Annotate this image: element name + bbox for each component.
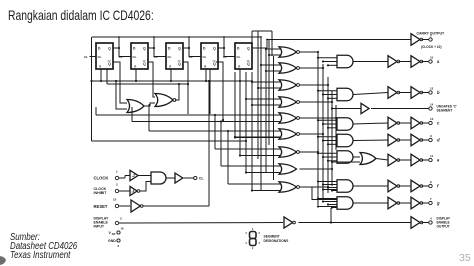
svg-text:2: 2 <box>116 183 118 187</box>
flip-flop FF1 <box>96 43 113 69</box>
and-gate A-g <box>337 197 353 210</box>
wire FF2 Qbar drop to G2 <box>148 62 155 97</box>
wire interbuffer row a <box>399 61 412 63</box>
vertical bus x258 <box>257 31 259 159</box>
or-gate G2 <box>155 94 173 107</box>
wire interbuffer row b <box>399 92 412 94</box>
flip-flop FF2 <box>131 43 148 69</box>
terminal output f pin 6 <box>429 184 432 187</box>
wire M7 output <box>300 151 319 153</box>
wire FF4 drop <box>216 62 223 120</box>
svg-text:f: f <box>437 184 439 189</box>
buffer row c stage2 <box>411 117 420 129</box>
svg-text:DD: DD <box>112 233 116 236</box>
svg-text:Q: Q <box>247 62 250 66</box>
buffer row g stage1 <box>388 197 397 209</box>
svg-text:4: 4 <box>430 217 432 221</box>
vertical bus x328 <box>327 77 329 193</box>
buffer row b stage1 <box>388 87 397 99</box>
buffer display enable output <box>411 217 420 229</box>
vertical bus x235 <box>234 72 236 138</box>
buffer row g stage2 <box>411 197 420 209</box>
wire M4 input stubs <box>246 98 282 100</box>
svg-text:OUTPUT: OUTPUT <box>437 225 450 229</box>
flip-flop FF5 <box>235 43 252 69</box>
or-gate M6 <box>279 129 297 140</box>
wire clock buf to AND <box>139 175 152 177</box>
svg-text:7: 7 <box>430 197 432 201</box>
wire reset vertical up <box>208 81 210 206</box>
svg-text:CL: CL <box>133 55 137 59</box>
vertical bus x252 <box>251 72 253 191</box>
svg-text:16: 16 <box>121 227 125 231</box>
wire AND to buffer row d <box>353 139 388 142</box>
flip-flop FF3 <box>166 43 183 69</box>
svg-text:Q: Q <box>247 47 250 51</box>
wire M7 upper input <box>215 148 281 150</box>
wire M1 input stubs <box>266 48 282 50</box>
wire M2 input stubs <box>261 64 282 66</box>
wire to terminal row c <box>422 122 429 124</box>
icon segment designations <box>250 232 257 246</box>
wire reset bus tap to gate G1 <box>116 81 127 109</box>
wire g-row link <box>300 187 338 200</box>
wire reset bus under flip-flops <box>92 80 254 82</box>
svg-text:(CLOCK ÷ 10): (CLOCK ÷ 10) <box>421 45 442 49</box>
buffer row f stage2 <box>411 180 420 192</box>
buffer clock inhibit <box>130 186 137 195</box>
wire CL stub FF3 <box>160 56 167 58</box>
wire M9 lower input <box>252 190 281 192</box>
svg-text:15: 15 <box>113 198 117 202</box>
svg-text:CL: CL <box>168 55 172 59</box>
svg-text:CL: CL <box>203 55 207 59</box>
wire to terminal row g <box>422 202 429 204</box>
or-gate M8 <box>279 164 297 175</box>
wire AND to buffer row g <box>353 202 388 204</box>
terminal CL node <box>194 176 197 179</box>
svg-text:b: b <box>437 90 440 95</box>
wire carry line <box>267 39 411 41</box>
wire bus y141 <box>92 140 247 142</box>
wire carry to terminal <box>422 39 429 41</box>
wire OR-e second input <box>332 161 360 163</box>
wire M8 output <box>300 168 333 170</box>
wire A-a input stubs <box>318 57 337 59</box>
and-gate clock <box>151 172 166 184</box>
svg-text:INPUT: INPUT <box>94 224 105 228</box>
wire ungated C input <box>332 108 361 110</box>
or-gate M4 <box>279 97 297 108</box>
vertical bus x261 <box>260 37 262 190</box>
wire bus y121.5 <box>132 121 281 123</box>
wire CL stub FF1 <box>90 56 97 58</box>
wire reset to vertical <box>143 205 210 207</box>
wire top feedback bus <box>92 36 261 38</box>
wire vertical tap to top bus at FF4 <box>223 37 225 48</box>
terminal output a pin 10 <box>429 60 432 63</box>
svg-text:R: R <box>169 65 171 69</box>
wire reset stub FF3 <box>170 69 172 81</box>
wire A-d input stubs <box>318 136 337 138</box>
terminal DISPLAY ENABLE INPUT pin 3 <box>115 221 118 224</box>
terminal output c pin 13 <box>429 121 432 124</box>
buffer row e stage2 <box>411 154 420 166</box>
svg-text:Q: Q <box>108 62 111 66</box>
or-gate M9 <box>279 182 297 193</box>
svg-text:d: d <box>437 138 440 143</box>
wire reset stub FF2 <box>135 69 137 81</box>
wire G2 output feedback <box>175 84 179 100</box>
wire reset stub FF4 <box>205 69 207 81</box>
wire interbuffer row g <box>399 202 412 204</box>
wire FF3 drop <box>183 62 188 84</box>
svg-text:CLOCK: CLOCK <box>94 175 109 180</box>
wire AND to buffer row f <box>353 185 388 187</box>
buffer clock 2 <box>175 173 183 183</box>
terminal output d pin 9 <box>429 138 432 141</box>
svg-text:c: c <box>437 121 440 126</box>
buffer carry output <box>411 34 420 46</box>
svg-text:DESIGNATIONS: DESIGNATIONS <box>264 239 290 243</box>
vertical bus x332 <box>331 91 333 186</box>
vertical bus x318 <box>317 51 319 205</box>
wire to terminal row a <box>422 61 429 63</box>
wire display enable input line <box>119 222 283 225</box>
slide title <box>8 7 154 23</box>
wire interbuffer row d <box>399 139 412 141</box>
buffer reset <box>131 200 140 212</box>
svg-text:e: e <box>437 158 440 163</box>
svg-text:10: 10 <box>430 56 434 60</box>
buffer row d stage2 <box>411 134 420 146</box>
svg-text:g: g <box>436 201 440 206</box>
svg-text:CL: CL <box>237 55 241 59</box>
wire FF4 drop2 <box>209 69 211 114</box>
buffer ungated C <box>361 103 369 113</box>
wire A-c input stubs <box>318 119 337 121</box>
wire vertical tap to top bus at FF3 <box>188 37 190 48</box>
wire ungated C to terminal <box>371 108 429 110</box>
svg-text:Q: Q <box>178 47 181 51</box>
buffer row b stage2 <box>411 87 420 99</box>
svg-text:13: 13 <box>430 117 434 121</box>
wire M9 upper input <box>228 183 281 185</box>
wire CL stub FF4 <box>195 56 202 58</box>
svg-text:14: 14 <box>430 103 434 107</box>
svg-text:12: 12 <box>430 87 434 91</box>
and-gate A-e <box>337 151 353 164</box>
page number <box>459 252 471 264</box>
or-gate OR-e <box>360 153 376 165</box>
wire M4 output <box>300 101 333 103</box>
vertical bus x336 <box>335 105 337 150</box>
wire A-e input stubs <box>318 152 337 154</box>
svg-text:Q: Q <box>108 47 111 51</box>
wire Q FF4 to CL FF5 <box>218 48 229 57</box>
svg-text:R: R <box>238 65 240 69</box>
wire Q FF2 to CL FF3 <box>148 48 160 57</box>
wire G1 out to G2 in <box>144 103 155 106</box>
wire AND-e to OR-e <box>353 156 360 158</box>
wire top jog FF5 <box>252 30 272 32</box>
buffer display enable mid <box>284 217 293 228</box>
wire to terminal row d <box>422 139 429 141</box>
wire bus y137.5 <box>235 137 281 139</box>
svg-text:CL: CL <box>199 177 204 181</box>
scan artifact bottom-left <box>0 256 6 265</box>
svg-text:R: R <box>134 65 136 69</box>
wire bus y115 <box>96 114 281 116</box>
svg-text:CL: CL <box>98 55 102 59</box>
or-gate M2 <box>279 63 297 74</box>
wire M6 output <box>300 133 324 135</box>
svg-text:RESET: RESET <box>94 204 108 209</box>
and-gate A-b <box>337 88 353 101</box>
wire to CL terminal <box>183 177 194 179</box>
wire display gate tap <box>330 208 332 223</box>
or-gate M1 <box>279 47 297 58</box>
wire AND to buffer row c <box>353 123 388 124</box>
svg-text:Q: Q <box>143 62 146 66</box>
wire to terminal row f <box>422 185 429 187</box>
svg-text:6: 6 <box>430 180 432 184</box>
wire g-row link2 <box>318 206 337 208</box>
wire vertical tap to top bus at FF1 <box>118 37 120 48</box>
wire feedback bus y84 <box>107 83 188 85</box>
wire M2 output <box>300 67 324 69</box>
wire Q FF3 to CL FF4 <box>183 48 195 57</box>
and-gate A-d <box>337 134 353 147</box>
and-gate A-c <box>337 118 353 131</box>
wire interbuffer row c <box>399 122 412 124</box>
svg-text:INHIBIT: INHIBIT <box>94 191 108 195</box>
and-gate A-f <box>337 180 353 193</box>
svg-text:Q: Q <box>178 62 181 66</box>
wire reset stub FF5 <box>239 69 241 81</box>
svg-text:9: 9 <box>430 134 432 138</box>
wire AND to buffer row b <box>353 93 388 95</box>
wire A-g input stubs <box>318 198 337 200</box>
wire display enable line right <box>299 222 412 224</box>
wire clock AND to buffer <box>166 177 175 179</box>
wire M1 output <box>300 51 319 53</box>
wire M3 output <box>300 84 329 86</box>
vertical bus x272 <box>271 31 273 56</box>
wire clock in <box>119 177 125 179</box>
wire CL stub FF5 <box>229 56 236 58</box>
vertical bus x273 <box>273 56 275 180</box>
wire reset in <box>119 205 130 207</box>
terminal carry output pin 5 <box>429 38 432 41</box>
wire A-b input stubs <box>318 90 337 92</box>
wire clock inhibit in <box>119 190 130 192</box>
buffer row d stage1 <box>388 134 397 146</box>
svg-text:8: 8 <box>118 244 120 248</box>
wire Q FF1 to CL FF2 <box>113 48 125 57</box>
terminal CLOCK pin 1 <box>115 176 118 179</box>
svg-text:GND: GND <box>108 239 116 243</box>
terminal output e pin 11 <box>429 158 432 161</box>
svg-text:Q: Q <box>213 62 216 66</box>
wire FF5 Q to carry line <box>252 40 267 49</box>
vertical bus x246 <box>245 72 247 173</box>
or-gate G1 <box>127 100 144 113</box>
terminal CLOCK INHIBIT pin 2 <box>115 189 118 192</box>
wire to terminal row b <box>422 92 429 94</box>
or-gate M5 <box>279 113 297 124</box>
vertical bus x240 <box>239 72 241 156</box>
source note <box>10 233 77 260</box>
vertical bus x269 <box>268 40 270 146</box>
wire M7 lower input <box>240 155 281 157</box>
buffer clock <box>130 170 138 180</box>
svg-text:CL: CL <box>84 55 88 59</box>
wire left vertical from top bus <box>91 37 93 141</box>
buffer row f stage1 <box>388 180 397 192</box>
terminal ungated C pin 14 <box>429 107 432 110</box>
wire M3 input stubs <box>252 81 282 83</box>
wire feedback drop to FF1 D <box>106 69 108 84</box>
svg-text:1: 1 <box>116 170 118 174</box>
vertical bus x323 <box>322 64 324 199</box>
svg-text:SEGMENT: SEGMENT <box>437 109 453 113</box>
flip-flop FF4 <box>201 43 218 69</box>
terminal RESET pin 15 <box>115 204 118 207</box>
svg-text:a: a <box>437 59 440 64</box>
or-gate M3 <box>279 80 297 91</box>
wire reset stub FF1 <box>100 69 102 81</box>
wire vertical tap to top bus at FF2 <box>153 37 155 48</box>
wire FF1 Qbar drop <box>113 62 127 103</box>
wire M6 input stubs <box>235 136 282 138</box>
svg-text:Q: Q <box>213 47 216 51</box>
wire interbuffer row e <box>399 159 412 161</box>
wire M9 output <box>300 186 329 188</box>
wire inhibit to AND <box>140 182 152 192</box>
svg-text:R: R <box>204 65 206 69</box>
buffer row a stage1 <box>388 56 397 68</box>
svg-text:R: R <box>99 65 101 69</box>
wire OR-e to buffer <box>376 159 388 161</box>
svg-text:CARRY OUTPUT: CARRY OUTPUT <box>417 32 445 36</box>
svg-text:Q: Q <box>143 47 146 51</box>
buffer row c stage1 <box>388 117 397 129</box>
wire f-row link2 <box>323 189 337 191</box>
wire deo to terminal <box>422 222 429 224</box>
wire AND to buffer row a <box>353 61 388 63</box>
wire M8 upper input <box>221 165 281 167</box>
svg-text:3: 3 <box>120 217 122 221</box>
wire feedback drop right <box>187 84 189 114</box>
wire CL stub FF2 <box>125 56 132 58</box>
terminal output g pin 7 <box>429 201 432 204</box>
wire A-f input stubs <box>318 181 337 183</box>
wire interbuffer row f <box>399 185 412 187</box>
wire M8 lower input <box>246 172 281 174</box>
or-gate M7 <box>279 147 297 158</box>
buffer row e stage1 <box>388 154 397 166</box>
wire to terminal row e <box>422 159 429 161</box>
svg-text:11: 11 <box>430 154 434 158</box>
wire M5 output <box>300 117 337 119</box>
vertical bus x266 <box>265 48 267 173</box>
wire bus y131 <box>149 130 281 132</box>
terminal display enable output pin 4 <box>429 221 432 224</box>
terminal output b pin 12 <box>429 91 432 94</box>
buffer row a stage2 <box>411 56 420 68</box>
and-gate A-a <box>337 55 353 68</box>
